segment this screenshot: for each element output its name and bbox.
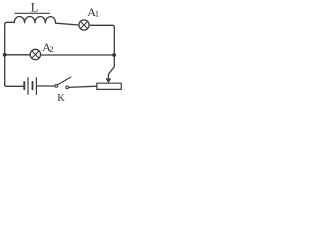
- svg-text:L: L: [31, 1, 39, 15]
- svg-text:1: 1: [95, 9, 99, 19]
- svg-text:2: 2: [49, 44, 53, 54]
- svg-text:K: K: [57, 93, 65, 104]
